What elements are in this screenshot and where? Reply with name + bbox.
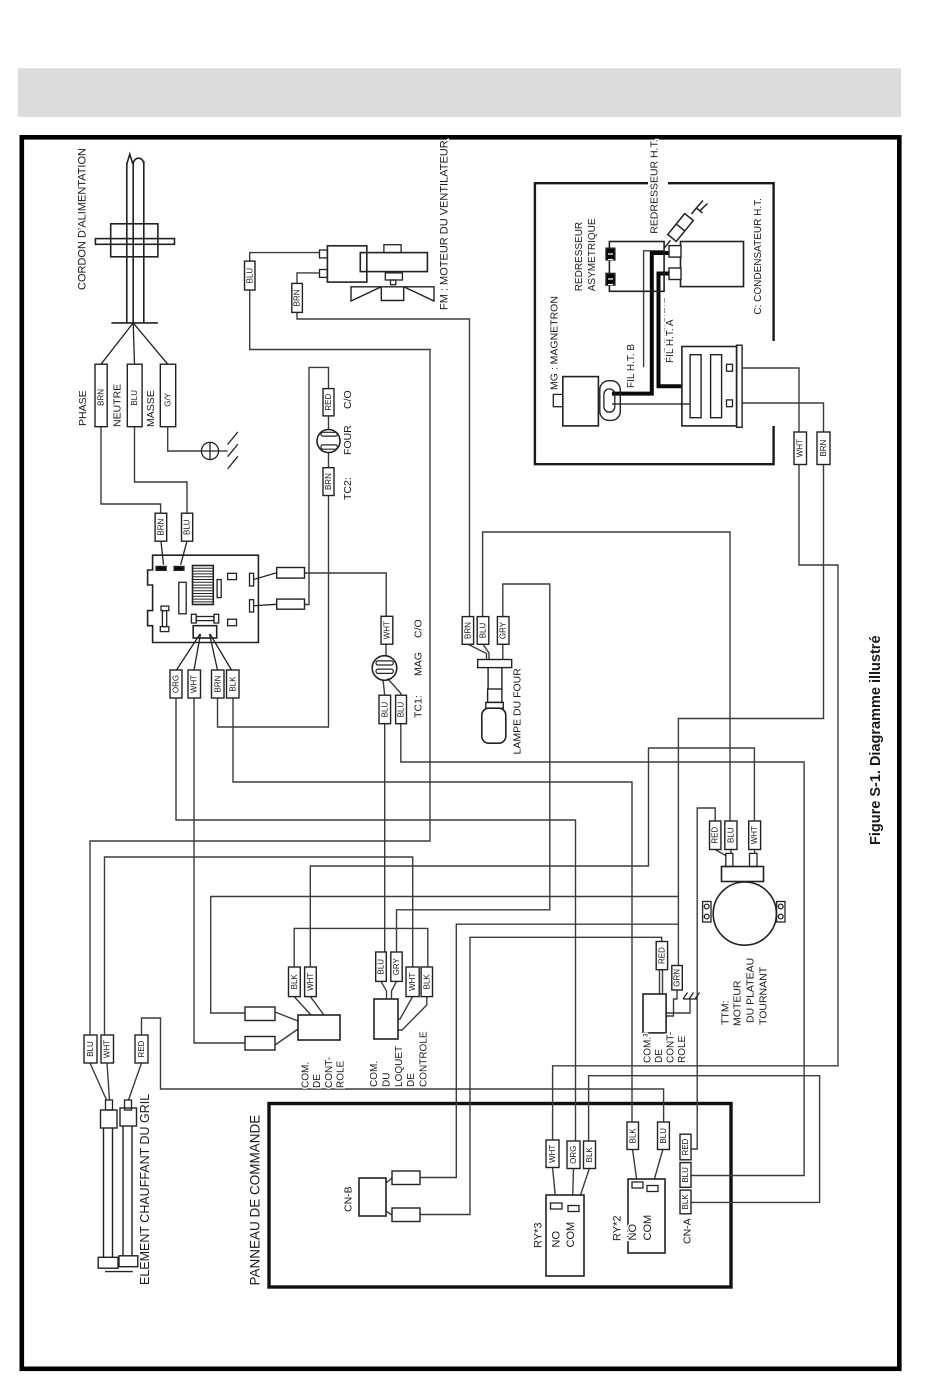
grill element bottom bar (105, 1271, 133, 1273)
board transformer hatch (193, 566, 214, 605)
wire label BLK (ry3 blk) (584, 1141, 596, 1169)
svg-text:BLU: BLU (479, 622, 488, 638)
wire label GRY (latch gry) (391, 952, 402, 981)
svg-text:WHT: WHT (750, 826, 759, 844)
svg-text:COM.³: COM.³ (643, 1033, 654, 1063)
asymmetric rectifier body (609, 242, 664, 292)
wire label BRN (tc2 brn) (323, 468, 334, 496)
svg-text:CONTROLE: CONTROLE (419, 1031, 430, 1087)
wire relay blk to RY2 blk (233, 698, 632, 1122)
relay connector 1 (277, 568, 305, 579)
svg-text:WHT: WHT (306, 973, 315, 991)
wire label BLU (relay in blu) (182, 513, 193, 541)
wire label BLK (cn-a blk) (680, 1190, 691, 1214)
svg-text:LAMPE DU FOUR: LAMPE DU FOUR (512, 668, 524, 755)
svg-text:BLK: BLK (422, 974, 431, 990)
cord fan-out wires (101, 323, 168, 364)
RY2 terminal marks (632, 1182, 643, 1188)
svg-text:BLU: BLU (377, 959, 386, 975)
wire label BLU (tc1 blu1) (379, 695, 391, 724)
relay connector 2 (277, 599, 305, 609)
wire com3 red leads (660, 970, 663, 994)
HT capacitor body (681, 242, 744, 287)
wire label BLK (latch blk) (421, 967, 432, 997)
CN-B connector body (359, 1178, 386, 1216)
wire neutre blu to relay (135, 427, 188, 513)
svg-text:TTM:: TTM: (720, 1001, 732, 1026)
oven lamp stem (488, 668, 502, 689)
wire label BLU (grill blu) (84, 1035, 97, 1063)
wire label BLU (tc1 blu2) (396, 695, 407, 724)
board input leads (161, 541, 187, 565)
svg-text:BRN: BRN (819, 440, 828, 457)
svg-text:RED: RED (137, 1040, 146, 1057)
control switch connector lower (245, 1037, 275, 1051)
TTM motor top block (722, 867, 764, 882)
svg-text:G/Y: G/Y (164, 392, 173, 406)
svg-text:BRN: BRN (213, 675, 222, 692)
board output block (193, 626, 217, 638)
wire fan brn to lamp brn (297, 312, 470, 616)
grill element tubes (104, 1126, 133, 1257)
HV transformer terminals (727, 364, 733, 371)
svg-text:DE: DE (312, 1074, 323, 1088)
svg-text:TOURNANT: TOURNANT (758, 966, 770, 1025)
wire label GRY (lamp gry) (497, 617, 509, 645)
board small component 1 (217, 580, 221, 598)
svg-text:BLU: BLU (380, 701, 389, 717)
svg-text:BLU: BLU (681, 1167, 690, 1183)
wire RY3 leads (553, 1167, 590, 1206)
wire label RED (grill red) (135, 1035, 148, 1063)
svg-text:BLU: BLU (245, 268, 254, 284)
svg-text:CORDON D’ALIMENTATION: CORDON D’ALIMENTATION (76, 148, 88, 290)
oven lamp socket (488, 689, 502, 702)
wire label BLK (control blk) (289, 967, 301, 997)
svg-text:DE: DE (654, 1049, 665, 1063)
svg-text:C/O: C/O (413, 619, 425, 638)
wire fan blu upper (250, 253, 320, 261)
wire lamp gry to latch gry (397, 584, 550, 952)
wire relay wht to control conn2 (194, 698, 245, 1043)
svg-text:DU PLATEAU: DU PLATEAU (745, 958, 757, 1023)
svg-text:GRY: GRY (392, 957, 401, 975)
svg-text:TC2:: TC2: (342, 477, 354, 500)
svg-text:COM.: COM. (369, 1061, 380, 1087)
wire com3 grn lead (666, 990, 677, 1016)
grill element end caps (98, 1257, 118, 1268)
control relay COM3 body (643, 994, 666, 1033)
svg-text:BLU: BLU (183, 519, 192, 535)
svg-text:REDRESSEUR: REDRESSEUR (574, 222, 585, 291)
wire relay conn1 to TC1 wht (305, 573, 387, 616)
wire label BRN (transformer brn) (817, 432, 830, 465)
wire lamp blu to TTM blu (483, 532, 730, 821)
board resistor (191, 614, 196, 623)
svg-text:PHASE: PHASE (77, 390, 89, 426)
svg-text:TC1:: TC1: (413, 695, 425, 718)
svg-text:FIL H.T. B: FIL H.T. B (626, 344, 637, 388)
wire label BRN (fan brn) (292, 283, 303, 312)
TC1 thermal cutout circle (372, 656, 397, 681)
wire label RED (com3 red) (656, 942, 667, 970)
wire HV diode lead (644, 251, 665, 367)
wire label BRN (relay out brn) (212, 670, 225, 698)
svg-text:ROLE: ROLE (677, 1035, 688, 1063)
svg-text:GRN: GRN (673, 969, 682, 987)
wire label BLU (cn-a blu) (680, 1163, 691, 1188)
TTM motor terminal stems (726, 853, 733, 866)
wire masse g/y to ground (168, 427, 202, 451)
svg-text:DE: DE (406, 1073, 417, 1087)
fan motor stator (360, 253, 427, 272)
relay control board outline (148, 555, 259, 642)
wire transformer t1 to wht (742, 368, 799, 432)
wire lamp leads (468, 644, 503, 659)
power cord lines (127, 161, 144, 323)
svg-text:CONT-: CONT- (324, 1057, 335, 1088)
wire latch leads (381, 981, 427, 1030)
board tall component (179, 582, 186, 614)
control switch body (298, 1015, 340, 1040)
svg-text:MAG: MAG (413, 652, 425, 676)
svg-text:BLU: BLU (86, 1041, 95, 1057)
FIL H.T. A thick wire (659, 274, 682, 387)
wire label WHT (ry3 wht) (546, 1140, 559, 1168)
PANNEAU DE COMMANDE box (269, 1104, 731, 1288)
svg-text:RED: RED (324, 394, 333, 411)
wire label WHT (transformer wht) (794, 432, 807, 465)
wire label BLK (relay out blk) (227, 670, 240, 698)
FIL H.T. A leader dash (664, 298, 666, 360)
magnetron body (563, 377, 599, 426)
svg-text:NO: NO (550, 1231, 562, 1248)
wire grill red to RY2 blu (142, 1018, 664, 1122)
svg-text:RED: RED (711, 827, 720, 844)
TC2 thermal cutout circle (317, 430, 340, 453)
svg-text:FIL H.T. A: FIL H.T. A (665, 319, 676, 363)
wire RY3 blk to CN-A blk (589, 1076, 820, 1203)
wire phase brn to relay (101, 427, 161, 513)
board small component 3 (228, 619, 237, 626)
svg-text:WHT: WHT (103, 1040, 112, 1058)
wire label BLU (latch blu) (376, 952, 387, 981)
svg-text:FM : MOTEUR DU VENTILATEUR: FM : MOTEUR DU VENTILATEUR (439, 140, 451, 310)
wire control wht to TTM wht (310, 748, 754, 967)
wire label BLU (fan blu) (245, 261, 256, 290)
wire control switch leads (275, 997, 324, 1045)
fan motor FM body (327, 246, 366, 282)
header grey bar (18, 68, 901, 117)
svg-text:BLU: BLU (726, 827, 735, 843)
svg-text:BLK: BLK (585, 1147, 594, 1163)
wire label ORG (relay out org) (170, 670, 182, 698)
svg-text:WHT: WHT (796, 439, 805, 457)
wire magnetron to transformer thin (612, 403, 690, 405)
svg-text:RY*2: RY*2 (612, 1216, 624, 1241)
svg-text:COM: COM (642, 1215, 654, 1241)
fan shaft (391, 280, 396, 285)
svg-text:REDRESSEUR H.T.: REDRESSEUR H.T. (649, 139, 661, 234)
wire relay org to RY3 org (176, 698, 576, 1141)
ground symbol (MASSE) (201, 432, 238, 469)
wire label RED (tc2 red) (323, 389, 334, 416)
wire label WHT (control wht) (305, 967, 317, 997)
wire label BRN (lamp brn) (462, 617, 473, 645)
HV transformer coil bars (690, 355, 701, 418)
wire fan brn upper (297, 273, 320, 284)
wire label BLK (ry2 blk) (627, 1122, 639, 1150)
svg-text:NO: NO (627, 1224, 639, 1241)
relay RY3 body (546, 1195, 584, 1276)
svg-text:C/O: C/O (342, 390, 354, 409)
wire TC1 blu1 to latch blu (384, 724, 386, 952)
wire label BLU (ttm blu) (725, 821, 737, 850)
svg-text:ROLE: ROLE (335, 1060, 346, 1088)
svg-text:BLK: BLK (290, 974, 299, 990)
svg-text:BRN: BRN (156, 519, 165, 536)
svg-text:BLK: BLK (228, 676, 237, 692)
wire relay conn2 to TC2 red (305, 367, 329, 604)
wire label WHT (relay out wht) (188, 670, 201, 698)
svg-text:CN-A: CN-A (682, 1218, 694, 1244)
wire TC1 circle to blu2 (388, 679, 402, 696)
wire label WHT (ttm wht) (749, 821, 761, 850)
svg-text:DU: DU (382, 1073, 393, 1087)
wire TC2 circle to brn (328, 453, 330, 468)
wire transformer t2 to brn (742, 403, 823, 432)
TTM mounting bracket right (777, 902, 785, 923)
svg-text:BRN: BRN (463, 622, 472, 639)
magnetron filament (604, 389, 615, 412)
wire com3 ground lead (666, 999, 690, 1013)
wire RY2 leads (633, 1149, 664, 1186)
com3 chassis ground (683, 993, 700, 1000)
svg-text:COM.: COM. (301, 1062, 312, 1088)
board input terminal bars (156, 567, 166, 571)
magnetron left lug (553, 394, 563, 406)
TTM mounting bracket left (703, 902, 711, 923)
wire label GRN (com3 grn) (672, 966, 683, 991)
svg-text:BLK: BLK (681, 1194, 690, 1210)
fan motor bottom lug (385, 273, 402, 280)
cord clamp bar (95, 239, 174, 245)
svg-text:BLK: BLK (628, 1128, 637, 1144)
oven lamp flange (478, 660, 512, 668)
svg-text:WHT: WHT (408, 973, 417, 991)
HV transformer plate (737, 345, 743, 427)
board terminal leads (254, 573, 277, 606)
HV circuit box (535, 183, 774, 464)
wire label BLU (lamp blu) (477, 617, 489, 645)
wire fan blu to grill blu (90, 290, 430, 1035)
svg-text:Figure S-1. Diagramme illustré: Figure S-1. Diagramme illustré (868, 635, 884, 845)
magnetron filament housing (600, 381, 621, 421)
svg-text:RY*3: RY*3 (532, 1223, 544, 1248)
svg-text:CONT-: CONT- (666, 1032, 677, 1063)
svg-text:BRN: BRN (324, 473, 333, 490)
wire grill leads (90, 1063, 142, 1100)
wire label ORG (ry3 org) (567, 1141, 580, 1169)
wire label WHT (grill wht) (101, 1035, 114, 1063)
cord plug prong tips (127, 154, 144, 164)
wire CN-B leads (386, 1178, 392, 1215)
RY3 terminal marks (551, 1203, 563, 1209)
control switch connector upper (245, 1007, 275, 1021)
fan motor top lug (384, 245, 401, 253)
svg-text:BRN: BRN (293, 289, 302, 306)
relay RY2 body (628, 1179, 665, 1253)
latch switch body (374, 999, 398, 1039)
wire label box blu (cord) (127, 364, 142, 427)
wire TC1 blu2 to CN-A blu (401, 724, 804, 1176)
svg-text:WHT: WHT (190, 675, 199, 693)
asymmetric rectifier black bars (606, 248, 615, 259)
wire control blk to latch blk (294, 928, 428, 967)
cord ferrite block (111, 224, 158, 257)
oven lamp collar (486, 702, 504, 708)
wire transformer wht to RY3 wht (553, 464, 838, 1140)
wire TC2 red to circle (328, 416, 330, 430)
HT rectifier diode (664, 201, 707, 249)
wire label RED (cn-a red) (680, 1134, 691, 1160)
svg-text:LOQUET: LOQUET (394, 1046, 405, 1087)
svg-text:PANNEAU DE COMMANDE: PANNEAU DE COMMANDE (248, 1115, 263, 1286)
svg-text:BLU: BLU (397, 701, 406, 717)
wire TTM leads (715, 850, 754, 857)
svg-text:WHT: WHT (382, 621, 391, 639)
board right terminal 1 (250, 573, 254, 586)
wire TC1 circle to blu1 (383, 680, 385, 696)
cord end bar (111, 322, 157, 324)
wire TC2 brn to relay brn (218, 496, 329, 728)
wire TC1 wht to circle (385, 644, 387, 656)
svg-text:FOUR: FOUR (342, 425, 354, 455)
fan blades (351, 287, 434, 301)
HT capacitor terminal 1 (669, 246, 681, 258)
wire label box gy (cord) (160, 364, 175, 427)
svg-text:MG : MAGNETRON: MG : MAGNETRON (549, 296, 561, 390)
svg-text:CN-B: CN-B (343, 1186, 355, 1212)
svg-text:ORG: ORG (172, 675, 181, 693)
wire label box brn (cord) (95, 364, 107, 427)
svg-text:ELEMENT CHAUFFANT DU GRIL: ELEMENT CHAUFFANT DU GRIL (138, 1094, 152, 1285)
wire label WHT (tc1 wht) (381, 616, 393, 644)
svg-text:C: CONDENSATEUR H.T.: C: CONDENSATEUR H.T. (753, 198, 764, 315)
svg-text:BRN: BRN (97, 389, 106, 406)
board output fan leads (177, 634, 232, 670)
svg-text:WHT: WHT (548, 1145, 557, 1163)
grill element terminal caps (101, 1110, 118, 1128)
grill element terminal stems (106, 1100, 113, 1110)
board right terminal 2 (250, 600, 254, 612)
CN-B pin 1 (392, 1171, 420, 1185)
wire grill wht to latch wht (105, 857, 413, 1035)
svg-text:ORG: ORG (569, 1146, 578, 1164)
wire label BRN (relay in brn) (155, 513, 167, 541)
wire label WHT (latch wht) (406, 967, 419, 997)
svg-text:ASYMETRIQUE: ASYMETRIQUE (587, 218, 598, 291)
svg-text:NEUTRE: NEUTRE (111, 384, 123, 427)
TTM motor body circle (713, 882, 776, 945)
oven lamp bulb (482, 708, 506, 743)
board small component 2 (228, 573, 237, 579)
HV transformer body (682, 347, 737, 426)
fan motor terminals (320, 250, 328, 258)
svg-text:COM: COM (565, 1222, 577, 1248)
svg-text:MOTEUR: MOTEUR (732, 980, 744, 1026)
wire CN-B2 to com3 red (420, 937, 662, 1214)
svg-text:MASSE: MASSE (145, 390, 157, 427)
svg-text:RED: RED (657, 947, 666, 964)
svg-text:BLU: BLU (130, 390, 139, 406)
FIL H.T. B thick wire (612, 253, 669, 394)
wire CN-A red to TTM red (691, 808, 715, 1149)
HT capacitor terminal 2 (669, 268, 681, 280)
svg-text:BLU: BLU (659, 1128, 668, 1144)
svg-text:GRY: GRY (499, 621, 508, 639)
svg-text:RED: RED (681, 1138, 690, 1155)
board capacitor (161, 606, 169, 611)
wire label BLU (ry2 blu) (658, 1122, 670, 1150)
wire label RED (ttm red) (710, 821, 721, 850)
CN-B pin 2 (392, 1208, 420, 1222)
wire transformer brn to com3 grn and control conn1 and CN-B1 (211, 464, 824, 1178)
